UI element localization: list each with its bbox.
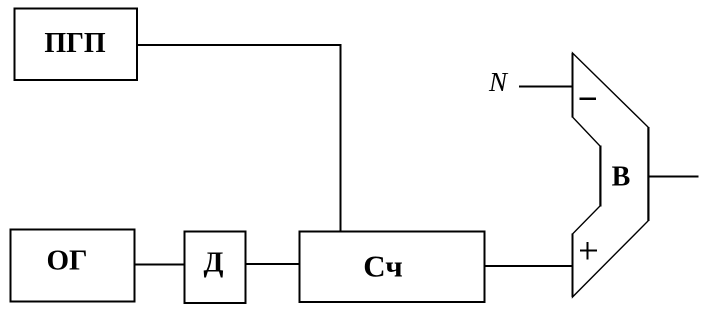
comparator left edge upper: [572, 53, 574, 118]
minus sign: [580, 97, 597, 100]
wire counter to comparator plus input: [485, 265, 574, 267]
wire D to counter: [246, 263, 300, 265]
comparator right edge: [648, 127, 650, 221]
plus sign: [580, 250, 597, 252]
comparator V outline: [573, 53, 649, 297]
comparator left edge lower: [572, 234, 574, 298]
svg-text:ОГ: ОГ: [46, 245, 87, 277]
wire OG to D: [135, 264, 185, 266]
block OG box: [11, 230, 135, 302]
wire N input: [519, 86, 573, 88]
wire PGP output horizontal: [137, 44, 342, 46]
comparator notch vertical: [600, 146, 602, 207]
wire comparator output: [648, 176, 699, 178]
wire down to counter: [340, 44, 342, 231]
block D box: [185, 232, 246, 304]
svg-text:Сч: Сч: [363, 249, 402, 284]
block counter Sch box: [300, 232, 485, 303]
svg-text:В: В: [612, 162, 631, 193]
svg-text:Д: Д: [204, 247, 224, 279]
block PGP box: [15, 9, 138, 81]
svg-text:ПГП: ПГП: [44, 28, 106, 59]
svg-text:N: N: [488, 67, 509, 97]
